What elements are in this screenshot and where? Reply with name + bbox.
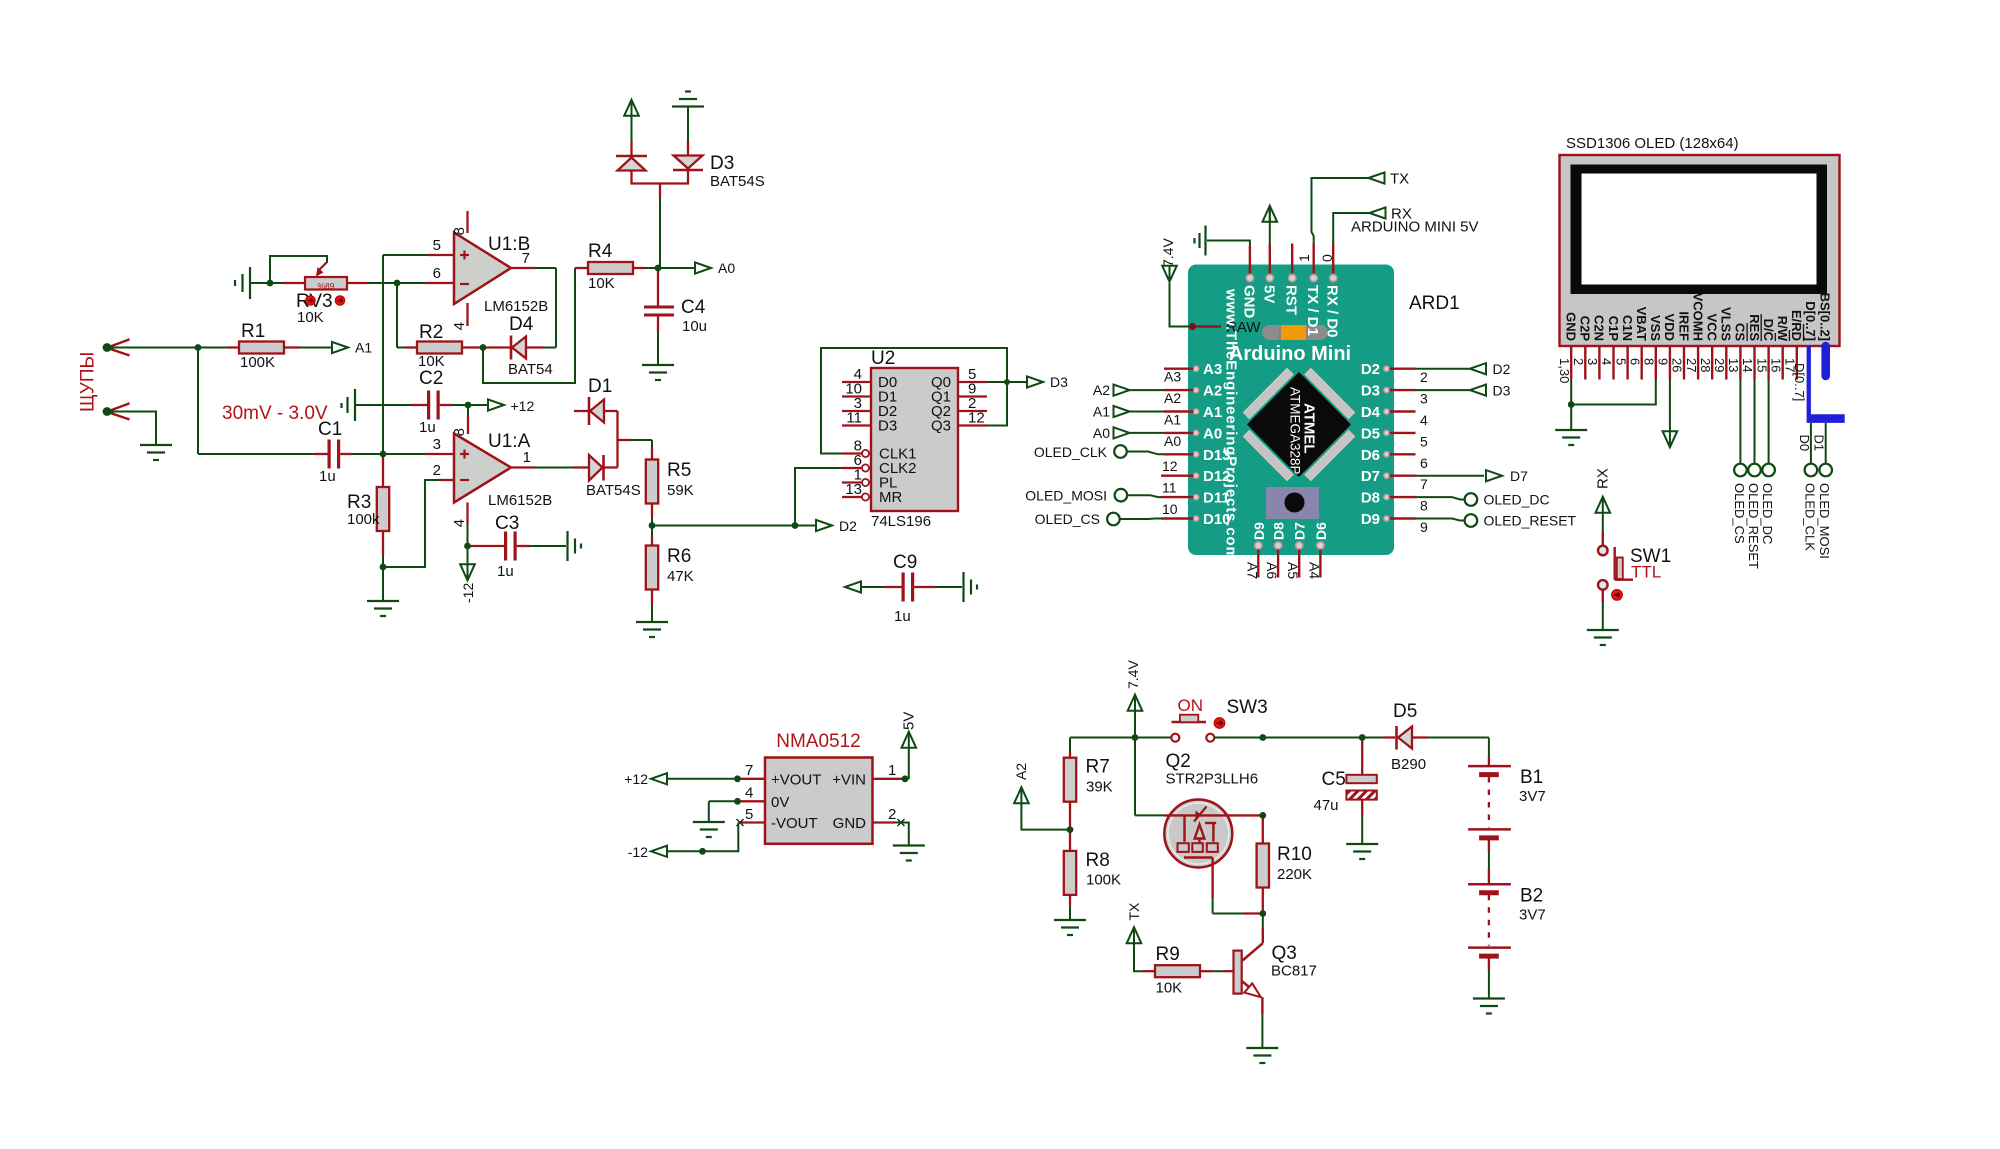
- svg-text:A0: A0: [718, 260, 735, 276]
- svg-text:MR: MR: [879, 489, 902, 506]
- svg-text:29: 29: [1712, 358, 1727, 372]
- svg-text:ARD1: ARD1: [1409, 293, 1460, 314]
- svg-text:D3: D3: [1361, 383, 1380, 400]
- svg-text:8: 8: [1642, 358, 1657, 365]
- svg-text:D13: D13: [1203, 447, 1231, 464]
- svg-text:59K: 59K: [667, 482, 694, 499]
- svg-text:RES: RES: [1747, 314, 1762, 341]
- svg-text:R3: R3: [347, 492, 371, 513]
- svg-text:16: 16: [1768, 358, 1783, 372]
- svg-text:Q3: Q3: [1272, 943, 1297, 964]
- svg-text:OLED_RESET: OLED_RESET: [1746, 483, 1761, 569]
- svg-text:BAT54S: BAT54S: [586, 482, 641, 499]
- svg-text:D10: D10: [1203, 511, 1231, 528]
- svg-text:4: 4: [745, 785, 753, 802]
- svg-text:5V: 5V: [901, 712, 918, 730]
- svg-text:A7: A7: [1244, 562, 1260, 579]
- svg-text:D/C: D/C: [1761, 319, 1776, 342]
- svg-text:IREF: IREF: [1676, 311, 1691, 341]
- svg-text:C1P: C1P: [1606, 316, 1621, 342]
- svg-text:D[0..7]: D[0..7]: [1792, 363, 1807, 401]
- svg-text:OLED_CLK: OLED_CLK: [1034, 444, 1108, 460]
- svg-text:10K: 10K: [588, 275, 615, 292]
- svg-text:+VOUT: +VOUT: [771, 771, 821, 788]
- svg-text:E/RD: E/RD: [1789, 310, 1804, 341]
- svg-text:B1: B1: [1520, 767, 1543, 788]
- svg-text:10: 10: [1162, 501, 1178, 517]
- svg-text:6: 6: [1420, 455, 1428, 471]
- svg-text:C2P: C2P: [1578, 316, 1593, 342]
- svg-text:A0: A0: [1093, 425, 1110, 441]
- svg-text:7.4V: 7.4V: [1160, 238, 1176, 267]
- svg-text:4: 4: [1599, 358, 1614, 365]
- svg-text:C5: C5: [1322, 769, 1346, 790]
- svg-text:3: 3: [1585, 358, 1600, 365]
- svg-text:LM6152B: LM6152B: [488, 492, 552, 509]
- svg-text:9: 9: [1656, 358, 1671, 365]
- svg-text:1u: 1u: [894, 608, 911, 625]
- svg-text:D6: D6: [1313, 522, 1329, 540]
- svg-text:1: 1: [523, 449, 531, 466]
- svg-text:R/W: R/W: [1775, 316, 1790, 342]
- svg-text:47u: 47u: [1314, 797, 1339, 814]
- svg-text:A1: A1: [1164, 412, 1181, 428]
- svg-text:11: 11: [846, 410, 862, 427]
- svg-text:A5: A5: [1285, 562, 1301, 579]
- svg-text:B290: B290: [1391, 756, 1426, 773]
- svg-text:OLED_DC: OLED_DC: [1760, 483, 1775, 544]
- svg-text:TX: TX: [1126, 902, 1142, 921]
- svg-text:A1: A1: [355, 340, 372, 356]
- svg-text:OLED_DC: OLED_DC: [1484, 492, 1550, 508]
- svg-text:Q3: Q3: [931, 418, 951, 435]
- svg-text:4: 4: [451, 322, 468, 330]
- svg-text:6: 6: [1627, 358, 1642, 365]
- svg-text:6: 6: [433, 265, 441, 282]
- svg-text:D7: D7: [1292, 522, 1308, 540]
- svg-text:C2N: C2N: [1592, 315, 1607, 341]
- svg-text:+VIN: +VIN: [832, 771, 866, 788]
- svg-text:R5: R5: [667, 460, 691, 481]
- svg-text:OLED_RESET: OLED_RESET: [1484, 513, 1577, 529]
- svg-text:D4: D4: [1361, 404, 1381, 421]
- svg-text:SW3: SW3: [1227, 697, 1268, 718]
- svg-text:OLED_MOSI: OLED_MOSI: [1817, 483, 1832, 559]
- svg-text:9: 9: [1420, 519, 1428, 535]
- svg-text:11: 11: [1162, 480, 1177, 496]
- svg-text:LM6152B: LM6152B: [484, 298, 548, 315]
- svg-text:Q2: Q2: [1166, 751, 1191, 772]
- svg-text:47K: 47K: [667, 568, 694, 585]
- svg-text:30mV - 3.0V: 30mV - 3.0V: [222, 403, 328, 424]
- svg-text:7: 7: [1420, 476, 1428, 492]
- svg-text:CS: CS: [1733, 323, 1748, 341]
- svg-text:0V: 0V: [771, 794, 789, 811]
- svg-text:BAT54S: BAT54S: [710, 173, 765, 190]
- svg-text:7: 7: [522, 250, 530, 267]
- svg-text:A3: A3: [1203, 361, 1222, 378]
- svg-text:10u: 10u: [682, 318, 707, 335]
- svg-text:3V7: 3V7: [1519, 788, 1546, 805]
- svg-text:74LS196: 74LS196: [871, 513, 931, 530]
- svg-text:10K: 10K: [1156, 980, 1183, 997]
- svg-text:5: 5: [745, 806, 753, 823]
- svg-text:R1: R1: [241, 321, 265, 342]
- svg-text:B2: B2: [1520, 886, 1543, 907]
- svg-text:1: 1: [1296, 254, 1312, 262]
- svg-text:D1: D1: [1812, 435, 1827, 452]
- svg-text:A1: A1: [1203, 404, 1222, 421]
- svg-text:2: 2: [433, 462, 441, 479]
- svg-text:STR2P3LLH6: STR2P3LLH6: [1166, 771, 1259, 788]
- svg-text:4: 4: [1420, 412, 1428, 428]
- svg-text:D2: D2: [839, 518, 857, 534]
- svg-text:15: 15: [1754, 358, 1769, 372]
- svg-text:RST: RST: [1283, 285, 1300, 315]
- svg-text:%89: %89: [317, 281, 334, 291]
- svg-text:3V7: 3V7: [1519, 907, 1546, 924]
- svg-text:Arduino Mini: Arduino Mini: [1229, 343, 1351, 365]
- svg-text:1: 1: [888, 762, 896, 779]
- svg-text:D3: D3: [710, 153, 734, 174]
- svg-text:5: 5: [1613, 358, 1628, 365]
- svg-text:27: 27: [1684, 358, 1699, 372]
- svg-text:A4: A4: [1306, 562, 1322, 579]
- svg-text:12: 12: [1162, 458, 1178, 474]
- svg-text:1u: 1u: [419, 419, 436, 436]
- svg-text:2: 2: [888, 806, 896, 823]
- svg-text:TX / D1: TX / D1: [1304, 285, 1321, 336]
- svg-text:3: 3: [433, 436, 441, 453]
- svg-text:1,30: 1,30: [1557, 358, 1572, 383]
- svg-text:VCC: VCC: [1705, 314, 1720, 342]
- svg-text:100K: 100K: [1086, 872, 1121, 889]
- svg-text:ATMEGA328P: ATMEGA328P: [1288, 387, 1303, 475]
- svg-text:D0: D0: [1797, 435, 1812, 452]
- svg-text:7: 7: [745, 762, 753, 779]
- svg-text:12: 12: [968, 410, 985, 427]
- svg-text:28: 28: [1698, 358, 1713, 372]
- svg-text:8: 8: [1420, 498, 1428, 514]
- svg-text:5: 5: [433, 237, 441, 254]
- svg-text:D3: D3: [878, 418, 897, 435]
- svg-text:10K: 10K: [297, 309, 324, 326]
- svg-text:OLED_CLK: OLED_CLK: [1802, 483, 1817, 551]
- svg-text:-12: -12: [628, 844, 648, 860]
- svg-text:1u: 1u: [319, 468, 336, 485]
- svg-text:ЩУПЫ: ЩУПЫ: [78, 352, 99, 412]
- svg-text:5V: 5V: [1260, 285, 1277, 303]
- svg-text:D11: D11: [1203, 490, 1230, 507]
- svg-text:A2: A2: [1203, 383, 1222, 400]
- svg-text:TX: TX: [1390, 171, 1409, 188]
- svg-text:D9: D9: [1251, 522, 1267, 540]
- svg-text:14: 14: [1740, 358, 1755, 372]
- svg-text:C9: C9: [893, 552, 917, 573]
- svg-text:5: 5: [1420, 433, 1428, 449]
- svg-text:D7: D7: [1361, 468, 1380, 485]
- svg-text:VBAT: VBAT: [1634, 307, 1649, 341]
- svg-text:OLED_MOSI: OLED_MOSI: [1025, 488, 1107, 504]
- svg-text:R4: R4: [588, 241, 613, 262]
- svg-text:D4: D4: [509, 314, 534, 335]
- svg-text:100k: 100k: [347, 511, 380, 528]
- svg-text:BC817: BC817: [1271, 963, 1317, 980]
- svg-text:+12: +12: [624, 771, 648, 787]
- svg-text:R10: R10: [1277, 844, 1312, 865]
- svg-text:D3: D3: [1050, 374, 1068, 390]
- svg-text:RX: RX: [1595, 468, 1612, 489]
- svg-text:4: 4: [451, 519, 468, 527]
- svg-text:VLSS: VLSS: [1719, 307, 1734, 341]
- svg-text:TTL: TTL: [1631, 563, 1661, 582]
- svg-text:100K: 100K: [240, 354, 275, 371]
- svg-text:GND: GND: [1240, 285, 1257, 319]
- svg-text:0: 0: [1319, 254, 1335, 262]
- svg-text:D9: D9: [1361, 511, 1380, 528]
- svg-text:C2: C2: [419, 368, 443, 389]
- svg-text:SSD1306 OLED (128x64): SSD1306 OLED (128x64): [1566, 135, 1739, 152]
- svg-text:VSS: VSS: [1648, 315, 1663, 341]
- svg-text:NMA0512: NMA0512: [776, 731, 861, 752]
- svg-text:C3: C3: [495, 513, 519, 534]
- svg-text:3: 3: [1420, 391, 1428, 407]
- svg-text:39K: 39K: [1086, 779, 1113, 796]
- svg-text:A2: A2: [1013, 763, 1029, 780]
- svg-text:1u: 1u: [497, 563, 514, 580]
- svg-text:ARDUINO MINI 5V: ARDUINO MINI 5V: [1351, 219, 1479, 236]
- svg-text:A0: A0: [1164, 433, 1181, 449]
- svg-text:ON: ON: [1178, 696, 1204, 715]
- svg-text:U2: U2: [871, 348, 895, 369]
- svg-text:D3: D3: [1493, 383, 1511, 399]
- svg-text:RX / D0: RX / D0: [1324, 285, 1341, 338]
- svg-text:D1: D1: [588, 376, 612, 397]
- svg-text:26: 26: [1670, 358, 1685, 372]
- svg-text:D12: D12: [1203, 468, 1231, 485]
- svg-text:OLED_CS: OLED_CS: [1035, 511, 1100, 527]
- svg-text:R7: R7: [1086, 757, 1110, 778]
- svg-text:D6: D6: [1361, 447, 1380, 464]
- svg-text:220K: 220K: [1277, 866, 1312, 883]
- svg-text:8: 8: [451, 227, 468, 235]
- svg-text:7.4V: 7.4V: [1125, 660, 1141, 689]
- svg-text:OLED_CS: OLED_CS: [1732, 483, 1747, 544]
- svg-text:C4: C4: [681, 297, 706, 318]
- svg-text:13: 13: [1726, 358, 1741, 372]
- svg-text:D[0..7]: D[0..7]: [1803, 301, 1818, 341]
- svg-text:A3: A3: [1164, 369, 1181, 385]
- svg-text:D8: D8: [1361, 490, 1380, 507]
- svg-text:A6: A6: [1264, 562, 1280, 579]
- svg-text:VDD: VDD: [1662, 314, 1677, 341]
- svg-text:2: 2: [1571, 358, 1586, 365]
- svg-text:A1: A1: [1093, 404, 1110, 420]
- svg-text:C1N: C1N: [1620, 315, 1635, 341]
- svg-text:+12: +12: [511, 398, 535, 414]
- svg-text:R9: R9: [1156, 944, 1180, 965]
- svg-text:-12: -12: [460, 583, 476, 603]
- svg-text:D2: D2: [1361, 361, 1380, 378]
- svg-text:-VOUT: -VOUT: [771, 815, 818, 832]
- svg-text:A2: A2: [1093, 382, 1110, 398]
- svg-text:D7: D7: [1510, 468, 1528, 484]
- svg-text:BS[0..2]: BS[0..2]: [1817, 293, 1832, 341]
- svg-text:R6: R6: [667, 546, 691, 567]
- svg-text:D2: D2: [1493, 361, 1511, 377]
- svg-text:A2: A2: [1164, 390, 1181, 406]
- svg-text:R2: R2: [419, 322, 443, 343]
- svg-text:A0: A0: [1203, 425, 1222, 442]
- svg-text:BAT54: BAT54: [508, 361, 553, 378]
- svg-text:D5: D5: [1361, 425, 1380, 442]
- svg-text:13: 13: [845, 481, 862, 498]
- svg-text:GND: GND: [833, 815, 867, 832]
- svg-text:GND: GND: [1564, 312, 1579, 341]
- svg-text:D8: D8: [1271, 522, 1287, 540]
- svg-text:D5: D5: [1393, 701, 1417, 722]
- svg-text:2: 2: [1420, 369, 1428, 385]
- svg-text:R8: R8: [1086, 850, 1110, 871]
- svg-text:VCOMH: VCOMH: [1690, 293, 1705, 341]
